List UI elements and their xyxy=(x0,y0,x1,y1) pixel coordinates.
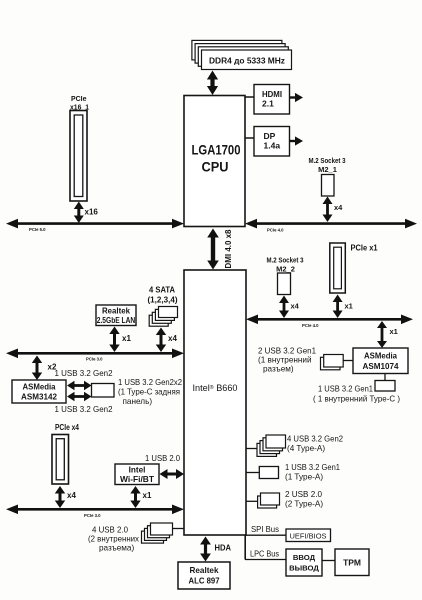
svg-text:PCIe 5.0: PCIe 5.0 xyxy=(29,227,46,232)
2 USB 2.0 stack xyxy=(258,496,277,508)
svg-text:PCIe 3.0: PCIe 3.0 xyxy=(86,357,103,362)
wire USB2 stack-B660 xyxy=(173,528,185,530)
4 USB 2.0 stack xyxy=(142,531,164,543)
bus PCIe 3.0 second xyxy=(16,508,174,511)
wire B660-USB Gen2 stack xyxy=(246,448,258,450)
svg-text:SPI Bus: SPI Bus xyxy=(251,525,279,534)
svg-text:x1: x1 xyxy=(390,327,398,336)
svg-text:(2 внутренних: (2 внутренних xyxy=(88,535,139,544)
svg-text:CPU: CPU xyxy=(202,160,229,175)
4 USB 3.2 Gen2 stack xyxy=(257,443,277,456)
DDR4 memory stack xyxy=(192,40,282,60)
HDMI output arrow xyxy=(290,96,296,98)
wire PCIe x4 slot x4 arrow xyxy=(55,486,65,508)
wire HDA arrow xyxy=(200,537,211,562)
svg-text:разъема): разъема) xyxy=(99,544,134,553)
TPM U10 header xyxy=(335,549,369,576)
svg-text:ВВОД: ВВОД xyxy=(293,553,316,562)
svg-text:4 SATA: 4 SATA xyxy=(149,285,175,295)
svg-text:Realtek: Realtek xyxy=(102,306,130,316)
wire M2_2 x4 arrow xyxy=(279,296,289,319)
svg-text:ASMedia: ASMedia xyxy=(23,382,56,392)
svg-text:PCIe x1: PCIe x1 xyxy=(351,244,379,253)
svg-text:1 USB 2.0: 1 USB 2.0 xyxy=(145,454,180,463)
wire ASM3142 Type-C arrow bottom xyxy=(67,392,92,402)
svg-text:x1: x1 xyxy=(122,334,131,343)
bus PCIe 4.0 second xyxy=(256,318,403,321)
2 USB 3.2 Gen1 stack xyxy=(321,357,341,370)
svg-text:(1 Type-A): (1 Type-A) xyxy=(285,473,323,482)
svg-text:PCIe 3.0: PCIe 3.0 xyxy=(84,513,101,518)
DP 1.4a box xyxy=(254,127,290,157)
svg-text:M2_1: M2_1 xyxy=(318,165,337,174)
svg-text:PCIe x4: PCIe x4 xyxy=(55,423,79,432)
wire LPC bus xyxy=(245,559,286,561)
svg-text:M2_2: M2_2 xyxy=(276,265,295,274)
svg-text:1 USB 3.2 Gen2: 1 USB 3.2 Gen2 xyxy=(55,369,113,378)
svg-text:Intel: Intel xyxy=(129,466,146,475)
4 SATA stack xyxy=(149,315,168,326)
chipset U2 Intel B660 xyxy=(184,270,246,535)
LAN U4 Realtek 2.5GbE xyxy=(96,305,136,326)
PCIe x16_1 slot xyxy=(70,111,87,202)
HDMI 2.1 box xyxy=(254,85,290,115)
svg-text:(1 Type-C задняя: (1 Type-C задняя xyxy=(118,388,180,397)
bus PCIe 3.0 first xyxy=(16,352,174,355)
svg-text:PCIe 4.0: PCIe 4.0 xyxy=(302,323,319,328)
wire WiFi-B660 arrow xyxy=(160,469,185,479)
svg-text:Intel® B660: Intel® B660 xyxy=(193,383,238,394)
wire DMI 4.0 x8 arrow xyxy=(207,229,219,270)
svg-text:ASMedia: ASMedia xyxy=(364,351,397,361)
WiFi module U6 Intel Wi-Fi/BT xyxy=(115,464,159,485)
wire B660-USB Gen1 port xyxy=(246,472,260,474)
svg-text:панель): панель) xyxy=(123,397,153,406)
PCIe x4 slot xyxy=(52,435,69,485)
svg-text:ТРМ: ТРМ xyxy=(343,558,361,568)
wire stack-ASM1074 xyxy=(343,360,353,362)
bus PCIe 4.0 top xyxy=(255,222,407,225)
svg-text:1 USB 3.2 Gen1: 1 USB 3.2 Gen1 xyxy=(285,463,340,472)
1 USB 3.2 Gen1 port xyxy=(259,467,278,479)
svg-text:2 USB 3.2 Gen1: 2 USB 3.2 Gen1 xyxy=(258,347,316,356)
svg-text:4 USB 2.0: 4 USB 2.0 xyxy=(92,526,128,535)
svg-text:( 1 внутренний Type-C ): ( 1 внутренний Type-C ) xyxy=(313,395,400,404)
M2_1 socket xyxy=(322,175,335,197)
svg-text:x1: x1 xyxy=(345,302,353,311)
svg-text:LGA1700: LGA1700 xyxy=(192,143,241,158)
svg-text:1 USB 3.2 Gen1: 1 USB 3.2 Gen1 xyxy=(318,385,373,394)
svg-text:(1,2,3,4): (1,2,3,4) xyxy=(148,295,178,305)
svg-text:1.4a: 1.4a xyxy=(264,141,281,151)
svg-text:разъем): разъем) xyxy=(263,365,294,374)
wire B660 right edge extension xyxy=(244,535,246,560)
wire B660-USB 2.0 stack xyxy=(246,500,258,502)
svg-text:(2 Type-A): (2 Type-A) xyxy=(285,500,323,509)
svg-text:x4: x4 xyxy=(168,334,177,343)
svg-text:DMI 4.0 x8: DMI 4.0 x8 xyxy=(223,229,233,268)
wire x1 arrow to ASM1074 xyxy=(377,321,387,348)
svg-text:DDR4 до 5333 MHz: DDR4 до 5333 MHz xyxy=(209,57,285,66)
wire LAN x1 arrow xyxy=(109,327,119,353)
svg-text:1 USB 3.2 Gen2: 1 USB 3.2 Gen2 xyxy=(55,405,113,414)
wire x2 arrow to ASM3142 xyxy=(32,356,42,381)
USB hub U3 ASMedia ASM1074 xyxy=(353,348,408,374)
USB 3.2 Gen2x2 Type-C port xyxy=(92,384,115,398)
svg-text:2.1: 2.1 xyxy=(262,99,274,109)
svg-text:PCIe 4.0: PCIe 4.0 xyxy=(267,228,284,233)
svg-text:M.2 Socket 3: M.2 Socket 3 xyxy=(309,156,346,165)
super IO U9 VVOD VYVOD xyxy=(286,549,322,576)
audio codec U7 Realtek ALC 897 xyxy=(178,562,230,589)
svg-text:ALC 897: ALC 897 xyxy=(189,576,220,586)
wire WiFi x1 arrow xyxy=(130,486,140,508)
wire CPU-DP xyxy=(245,137,254,139)
bus PCIe 5.0 xyxy=(16,222,174,225)
svg-text:1 USB 3.2 Gen2x2: 1 USB 3.2 Gen2x2 xyxy=(118,378,182,387)
svg-text:x1: x1 xyxy=(143,491,152,500)
DP output arrow xyxy=(290,140,296,142)
1 USB 3.2 Gen1 Type-C port xyxy=(375,381,395,392)
svg-text:x16: x16 xyxy=(85,208,99,217)
svg-text:2.5GbE LAN: 2.5GbE LAN xyxy=(97,316,136,325)
svg-text:(4 Type-A): (4 Type-A) xyxy=(287,444,325,453)
BIOS U8 UEFI/BIOS xyxy=(286,529,331,542)
wire PCIe x1 slot x1 arrow xyxy=(333,295,343,319)
svg-text:DP: DP xyxy=(264,131,276,141)
wire M2_1 x4 arrow xyxy=(323,197,333,223)
wire SPI bus xyxy=(245,534,286,536)
svg-text:(1 внутренний: (1 внутренний xyxy=(258,356,312,365)
svg-text:x4: x4 xyxy=(291,302,300,311)
svg-text:Wi-Fi/BT: Wi-Fi/BT xyxy=(120,475,154,484)
svg-text:2 USB 2.0: 2 USB 2.0 xyxy=(285,490,322,499)
svg-text:HDMI: HDMI xyxy=(262,89,282,99)
svg-text:ВЫВОД: ВЫВОД xyxy=(289,564,319,573)
wire CPU-HDMI xyxy=(245,96,254,98)
wire ASM3142 Type-C arrow top xyxy=(67,381,92,391)
wire IO-TPM xyxy=(322,560,335,562)
svg-text:M.2 Socket 3: M.2 Socket 3 xyxy=(267,256,304,265)
svg-text:x4: x4 xyxy=(334,203,343,212)
svg-text:ASM3142: ASM3142 xyxy=(21,392,57,402)
wire ASM1074 to Type-C port xyxy=(384,374,386,381)
wire DDR4-CPU arrow xyxy=(207,71,218,96)
M2_2 socket xyxy=(278,273,291,295)
wire SATA x4 arrow xyxy=(156,328,166,353)
CPU U1 LGA1700 xyxy=(184,96,245,227)
svg-text:LPC Bus: LPC Bus xyxy=(250,550,279,559)
svg-text:UEFI/BIOS: UEFI/BIOS xyxy=(289,532,326,541)
svg-text:x4: x4 xyxy=(67,491,76,500)
PCIe x1 slot xyxy=(330,243,346,293)
USB controller U5 ASMedia ASM3142 xyxy=(12,380,66,403)
svg-text:Realtek: Realtek xyxy=(190,565,219,575)
svg-text:4 USB 3.2 Gen2: 4 USB 3.2 Gen2 xyxy=(287,435,343,444)
wire x16 arrow xyxy=(74,202,84,224)
svg-text:HDA: HDA xyxy=(215,544,232,553)
svg-text:ASM1074: ASM1074 xyxy=(363,361,399,371)
